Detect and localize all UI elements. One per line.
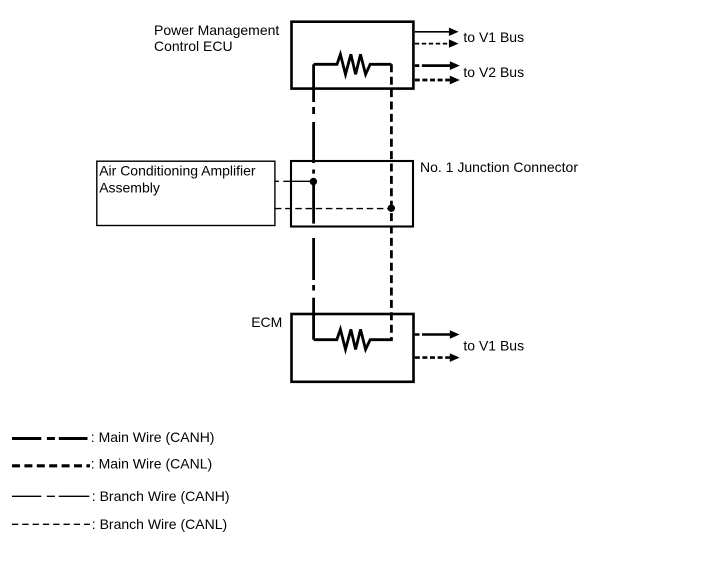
label: Air Conditioning Amplifier Assembly bbox=[99, 163, 256, 196]
svg-text:No. 1 Junction Connector: No. 1 Junction Connector bbox=[420, 159, 578, 175]
box U1: Power Management Control ECU bbox=[292, 22, 414, 89]
svg-text:Air Conditioning Amplifier: Air Conditioning Amplifier bbox=[99, 163, 256, 179]
label: to V1 Bus (ECM) bbox=[463, 338, 524, 354]
legend label: Branch Wire (CANH) bbox=[92, 488, 230, 504]
legend label: Branch Wire (CANL) bbox=[92, 516, 227, 532]
svg-text:to V1 Bus: to V1 Bus bbox=[463, 29, 524, 45]
box U2: No. 1 Junction Connector bbox=[291, 161, 413, 227]
resistor R1: terminating resistor inside Power Management Control ECU bbox=[314, 54, 392, 74]
wire: main wire CANH vertical run (x=313.6, dash-dot pattern) bbox=[312, 64, 315, 339]
box U3: ECM bbox=[292, 314, 414, 382]
box: Air Conditioning Amplifier Assembly bbox=[97, 161, 275, 225]
wire: main wire CANL vertical run (x=391.4, dashed) bbox=[390, 64, 393, 339]
legend symbol: Main Wire CANL (thick dashed) bbox=[12, 464, 90, 467]
node A: CANH junction dot bbox=[310, 178, 317, 185]
svg-text:: Main Wire (CANH): : Main Wire (CANH) bbox=[91, 429, 215, 445]
label: to V1 Bus (Power Management Control ECU) bbox=[463, 29, 524, 45]
node B: CANL junction dot bbox=[388, 205, 395, 212]
label: to V2 Bus (Power Management Control ECU) bbox=[463, 64, 524, 80]
arrow: main wire CANL to V2 Bus (thick dashed) bbox=[415, 76, 460, 85]
svg-text:Control ECU: Control ECU bbox=[154, 38, 233, 54]
svg-text:to V2 Bus: to V2 Bus bbox=[463, 64, 524, 80]
legend label: Main Wire (CANL) bbox=[91, 455, 212, 471]
svg-text:Assembly: Assembly bbox=[99, 180, 160, 196]
legend symbol: Main Wire CANH (thick dash-dot) bbox=[12, 437, 88, 440]
label: Power Management Control ECU bbox=[154, 22, 279, 54]
legend symbol: Branch Wire CANL (thin dashed) bbox=[12, 523, 90, 525]
arrow: main wire CANH to V2 Bus (thick dash-dot) bbox=[415, 61, 460, 70]
label: ECM bbox=[251, 314, 282, 330]
arrow: main wire CANL to V1 Bus from ECM (dashed) bbox=[415, 353, 460, 362]
svg-text:: Main Wire (CANL): : Main Wire (CANL) bbox=[91, 455, 212, 471]
arrow: branch wire CANL to V1 Bus (thin dashed) bbox=[415, 39, 459, 47]
wire: branch wire CANH from A/C Amplifier to junction node A bbox=[275, 180, 313, 182]
svg-text:: Branch Wire (CANH): : Branch Wire (CANH) bbox=[92, 488, 230, 504]
svg-text:to V1 Bus: to V1 Bus bbox=[463, 338, 524, 354]
arrow: branch wire CANH to V1 Bus (top, thin solid) bbox=[415, 28, 459, 36]
svg-text:ECM: ECM bbox=[251, 314, 282, 330]
arrow: main wire CANH to V1 Bus from ECM (dash-dot) bbox=[415, 330, 460, 339]
svg-text:Power Management: Power Management bbox=[154, 22, 279, 38]
resistor R2: terminating resistor inside ECM bbox=[314, 329, 393, 349]
wire: branch wire CANL from A/C Amplifier to junction node B (thin dashed) bbox=[275, 208, 391, 210]
svg-text:: Branch Wire (CANL): : Branch Wire (CANL) bbox=[92, 516, 227, 532]
label: No. 1 Junction Connector bbox=[420, 159, 578, 175]
legend label: Main Wire (CANH) bbox=[91, 429, 215, 445]
legend symbol: Branch Wire CANH (thin dash-dot) bbox=[12, 495, 89, 497]
